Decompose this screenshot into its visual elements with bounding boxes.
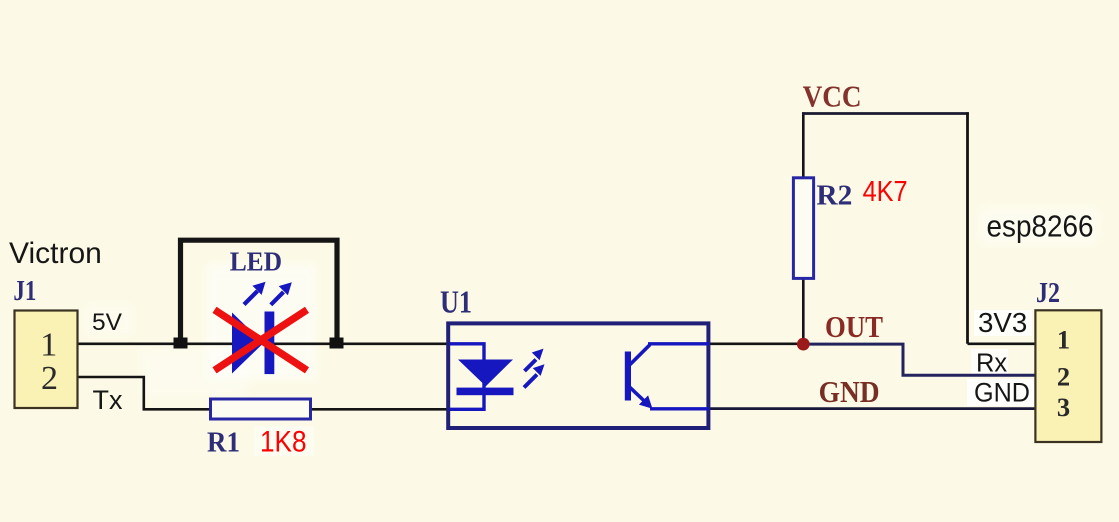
junction right square <box>330 338 344 349</box>
svg-text:J2: J2 <box>1036 278 1060 309</box>
U1 internal LED triangle <box>458 360 513 387</box>
halo behind esp8266 label <box>980 208 1098 244</box>
halo behind 3V3 label <box>974 310 1032 336</box>
U1 phototransistor <box>625 344 710 409</box>
wire VCC horizontal rail <box>802 112 969 115</box>
U1 internal LED cathode bar <box>457 388 514 396</box>
junction left square <box>174 338 188 349</box>
svg-text:R2: R2 <box>816 180 852 212</box>
svg-text:2: 2 <box>41 360 58 397</box>
red cross over LED <box>215 310 308 371</box>
wire OUT to J2 pin2 (Rx) <box>806 344 1036 375</box>
svg-text:1: 1 <box>40 327 57 364</box>
svg-text:J1: J1 <box>13 276 36 307</box>
svg-text:VCC: VCC <box>803 79 862 114</box>
svg-text:Tx: Tx <box>93 385 123 415</box>
halo near Tx wire <box>140 348 248 398</box>
svg-text:R1: R1 <box>207 427 240 459</box>
wire 5V: J1 pin1 to U1 anode <box>78 342 450 345</box>
wire GND: U1 emitter to J2 pin3 <box>709 407 1036 410</box>
connector J2 body <box>1035 310 1101 442</box>
svg-text:GND: GND <box>819 374 880 409</box>
halo behind Rx label <box>971 349 1008 374</box>
wire R1 to U1 cathode side <box>311 408 451 411</box>
bypass jumper wire over LED <box>181 240 338 340</box>
svg-text:Victron: Victron <box>9 237 102 270</box>
wire U1 collector to OUT junction <box>709 342 800 345</box>
junction dot OUT node <box>797 338 810 351</box>
resistor R1 <box>211 399 311 419</box>
svg-text:OUT: OUT <box>825 309 883 344</box>
wire OUT junction up to R2 bottom <box>802 278 805 340</box>
svg-text:1K8: 1K8 <box>260 426 307 459</box>
LED emission arrow 1 <box>244 282 266 305</box>
wire R2 top to VCC rail <box>802 112 805 178</box>
svg-text:3V3: 3V3 <box>978 307 1027 338</box>
U1 emission arrow 1 <box>525 349 544 371</box>
LED diode symbol (crossed out) <box>232 312 274 375</box>
LED emission arrow 2 <box>271 282 292 305</box>
svg-text:U1: U1 <box>440 284 472 320</box>
resistor R2 <box>793 178 813 279</box>
svg-text:3: 3 <box>1057 392 1070 422</box>
wire VCC down right side to 3V3 <box>966 112 969 343</box>
svg-text:Rx: Rx <box>976 349 1007 377</box>
svg-text:2: 2 <box>1057 362 1070 392</box>
U1 internal LED conductors <box>450 344 485 410</box>
connector J1 body <box>15 311 78 409</box>
svg-text:5V: 5V <box>92 309 123 336</box>
svg-text:4K7: 4K7 <box>863 176 908 208</box>
halo behind black GND label <box>967 379 1041 406</box>
svg-text:1: 1 <box>1057 325 1070 355</box>
wire 3V3 into J2 pin1 <box>968 342 1037 345</box>
svg-text:GND: GND <box>974 378 1030 408</box>
svg-text:LED: LED <box>230 247 282 277</box>
halo near Tx annotation <box>85 305 133 335</box>
optocoupler U1 box <box>448 323 708 428</box>
wire Tx: J1 pin2 down to R1 level <box>78 377 211 409</box>
svg-text:esp8266: esp8266 <box>987 210 1094 244</box>
U1 emission arrow 2 <box>524 364 545 387</box>
halo behind 1K8 value <box>254 426 314 456</box>
halo behind crossed LED graphic <box>206 264 316 380</box>
